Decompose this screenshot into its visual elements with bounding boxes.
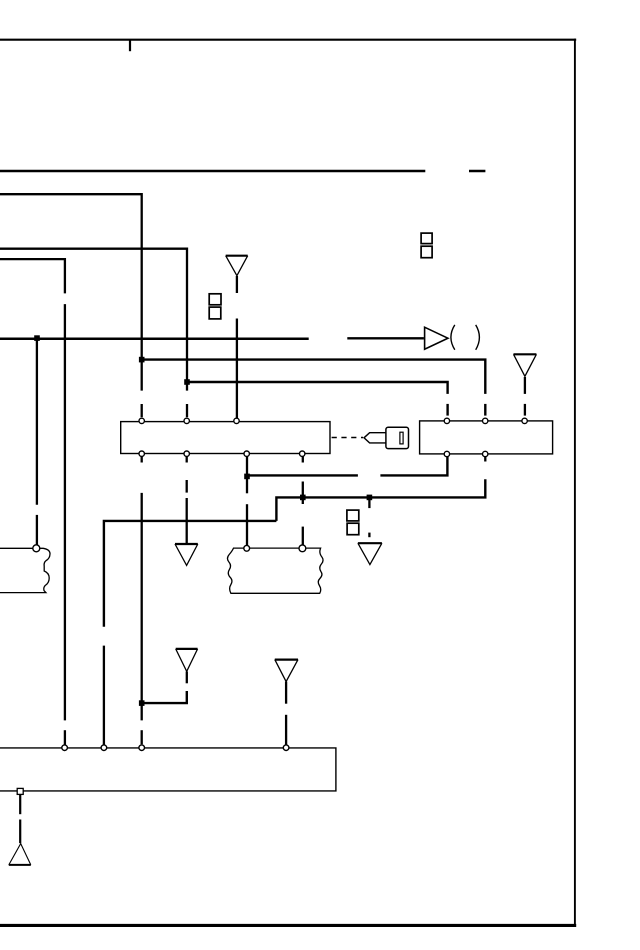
wire x=141.7 stub below J1	[141, 457, 143, 463]
ground arrow symbol (x=369.9)	[358, 542, 382, 544]
arrow symbol 2 (x=186.7)	[176, 648, 198, 650]
wire branch dash	[36, 515, 38, 546]
wire x=485.3 stub below J2	[484, 457, 486, 462]
wire branch from bus E junction down	[36, 340, 38, 505]
key symbol head	[386, 427, 409, 448]
terminal on right component box pin 2	[299, 545, 306, 552]
connector code squares (pair near x=347)	[347, 510, 359, 521]
wire I (y=497.4) with corners	[276, 479, 485, 521]
wire K (y=703.1)	[142, 691, 187, 703]
key symbol shaft	[364, 433, 386, 443]
wire resumes to connector J1	[236, 319, 238, 419]
wire x=186.7 dash	[186, 480, 188, 493]
wire below junction 247	[246, 457, 248, 494]
wire bus B (y=194) down at x=141.7	[0, 194, 142, 390]
wire H (y=475.4) from junction to J2 pin	[380, 457, 447, 476]
wire x=141.7 bottom dash	[141, 730, 143, 744]
wire x=302.8 lower stub into terminal	[302, 527, 304, 546]
junction dot at (247,475.4)	[244, 474, 250, 480]
connector J2 bottom pin terminals	[444, 451, 449, 456]
wire bus E (y=338.8)	[0, 338, 309, 341]
key symbol slot	[400, 432, 403, 444]
key switch dashed link	[332, 437, 363, 439]
wire J (y=520.9)	[104, 521, 277, 627]
dash above connector J2 pin	[524, 404, 526, 416]
wire below right arrow	[524, 377, 526, 394]
junction/relay box (bottom)	[0, 748, 336, 791]
wire bus C (y=248.7) down at x=187	[0, 249, 187, 391]
relay box top pin terminals	[62, 745, 68, 751]
wire bus C dash segment	[186, 404, 188, 417]
wire resumes to relay box	[285, 715, 287, 746]
ground arrow symbol (top, x=236.8)	[226, 255, 248, 257]
wire x=302.8 upper stub	[302, 457, 304, 463]
junction dot on x=141.7	[139, 357, 145, 363]
component box (right, torn both edges)	[227, 548, 323, 593]
wire x=369.4 below junction	[368, 497, 370, 508]
relay box bottom square terminal	[17, 788, 23, 794]
ground arrow symbol (below J1, x=186.6)	[175, 543, 198, 545]
wire bus B dash segment	[141, 404, 143, 417]
frame top tick	[129, 40, 131, 51]
wire F dash above J2	[484, 404, 486, 416]
connector J2 top pin terminals	[444, 418, 449, 423]
ground lead dash	[19, 820, 21, 844]
wire below top ground arrow	[236, 276, 238, 293]
wire F from junction (141.7,359.6) to connector J2	[142, 360, 486, 394]
frame top border	[0, 39, 576, 41]
junction dot at (369.4,497.4)	[367, 495, 373, 501]
wire G from junction (187,382) to connector J2	[187, 382, 448, 394]
frame bottom border	[0, 924, 576, 927]
wire x=186.7 stub below J1	[186, 457, 188, 463]
ground lead from relay box	[19, 795, 21, 815]
connector J1 top pin terminals	[139, 418, 144, 423]
parenthesis left	[451, 325, 455, 350]
connector block J1	[121, 422, 330, 454]
wire H left part	[247, 474, 358, 476]
wire x=302.8 through junction	[302, 482, 304, 505]
stub below arrow 2 apex	[186, 672, 188, 684]
wire to output arrow	[347, 337, 424, 339]
terminal circle on left component box	[33, 545, 40, 552]
connector block J2	[420, 421, 553, 454]
connector code squares (pair near x=421)	[421, 233, 432, 244]
wire x=369.4 dash	[368, 533, 370, 538]
wire bus D long vertical run	[64, 304, 66, 720]
arrow symbol 3 (x=286.1)	[275, 658, 298, 660]
junction dot at (141.7,703.1)	[139, 700, 145, 706]
wire bus D bottom dash	[64, 730, 66, 744]
wire x=103.9 lower run	[103, 646, 105, 746]
connector code squares (pair near x=209)	[209, 294, 221, 305]
wire bus A (y=171)	[0, 170, 425, 172]
frame right border	[574, 39, 576, 927]
junction dot on x=187	[184, 379, 190, 385]
wire x=186.7 run to ground	[186, 498, 188, 544]
dash below junction 247	[246, 504, 248, 545]
connector J1 bottom pin terminals	[139, 451, 144, 456]
antenna arrow symbol (right, x=524.6)	[514, 353, 537, 355]
terminal on right component box pin 1	[244, 545, 250, 551]
junction dot at (302.8,497.4)	[300, 495, 306, 501]
body ground symbol (triangle up)	[9, 864, 31, 866]
wire bus A continuation dash	[469, 170, 485, 172]
wire G dash above J2	[446, 404, 448, 416]
wire below arrow 3	[285, 682, 287, 704]
junction on bus E	[34, 335, 40, 341]
wire x=141.7 long run	[141, 493, 143, 721]
arrow head (open triangle)	[425, 327, 448, 349]
parenthesis right	[476, 325, 480, 350]
component box (left, torn edge)	[0, 548, 50, 592]
wire bus D (y=259.1) down at x=64.9	[0, 259, 65, 293]
